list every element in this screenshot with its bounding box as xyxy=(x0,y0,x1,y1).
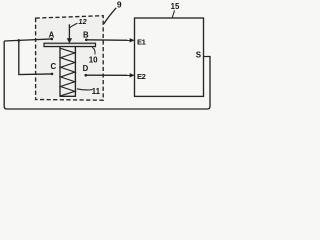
svg-text:11: 11 xyxy=(92,87,101,96)
svg-text:9: 9 xyxy=(117,0,122,10)
svg-text:C: C xyxy=(50,62,56,71)
svg-text:15: 15 xyxy=(171,2,180,11)
svg-text:B: B xyxy=(83,31,89,40)
svg-text:E2: E2 xyxy=(137,72,146,81)
svg-text:10: 10 xyxy=(89,55,98,64)
svg-text:A: A xyxy=(49,31,55,40)
svg-text:D: D xyxy=(83,64,89,73)
svg-text:12: 12 xyxy=(78,17,87,26)
svg-text:S: S xyxy=(196,51,202,60)
svg-text:E1: E1 xyxy=(137,37,147,46)
